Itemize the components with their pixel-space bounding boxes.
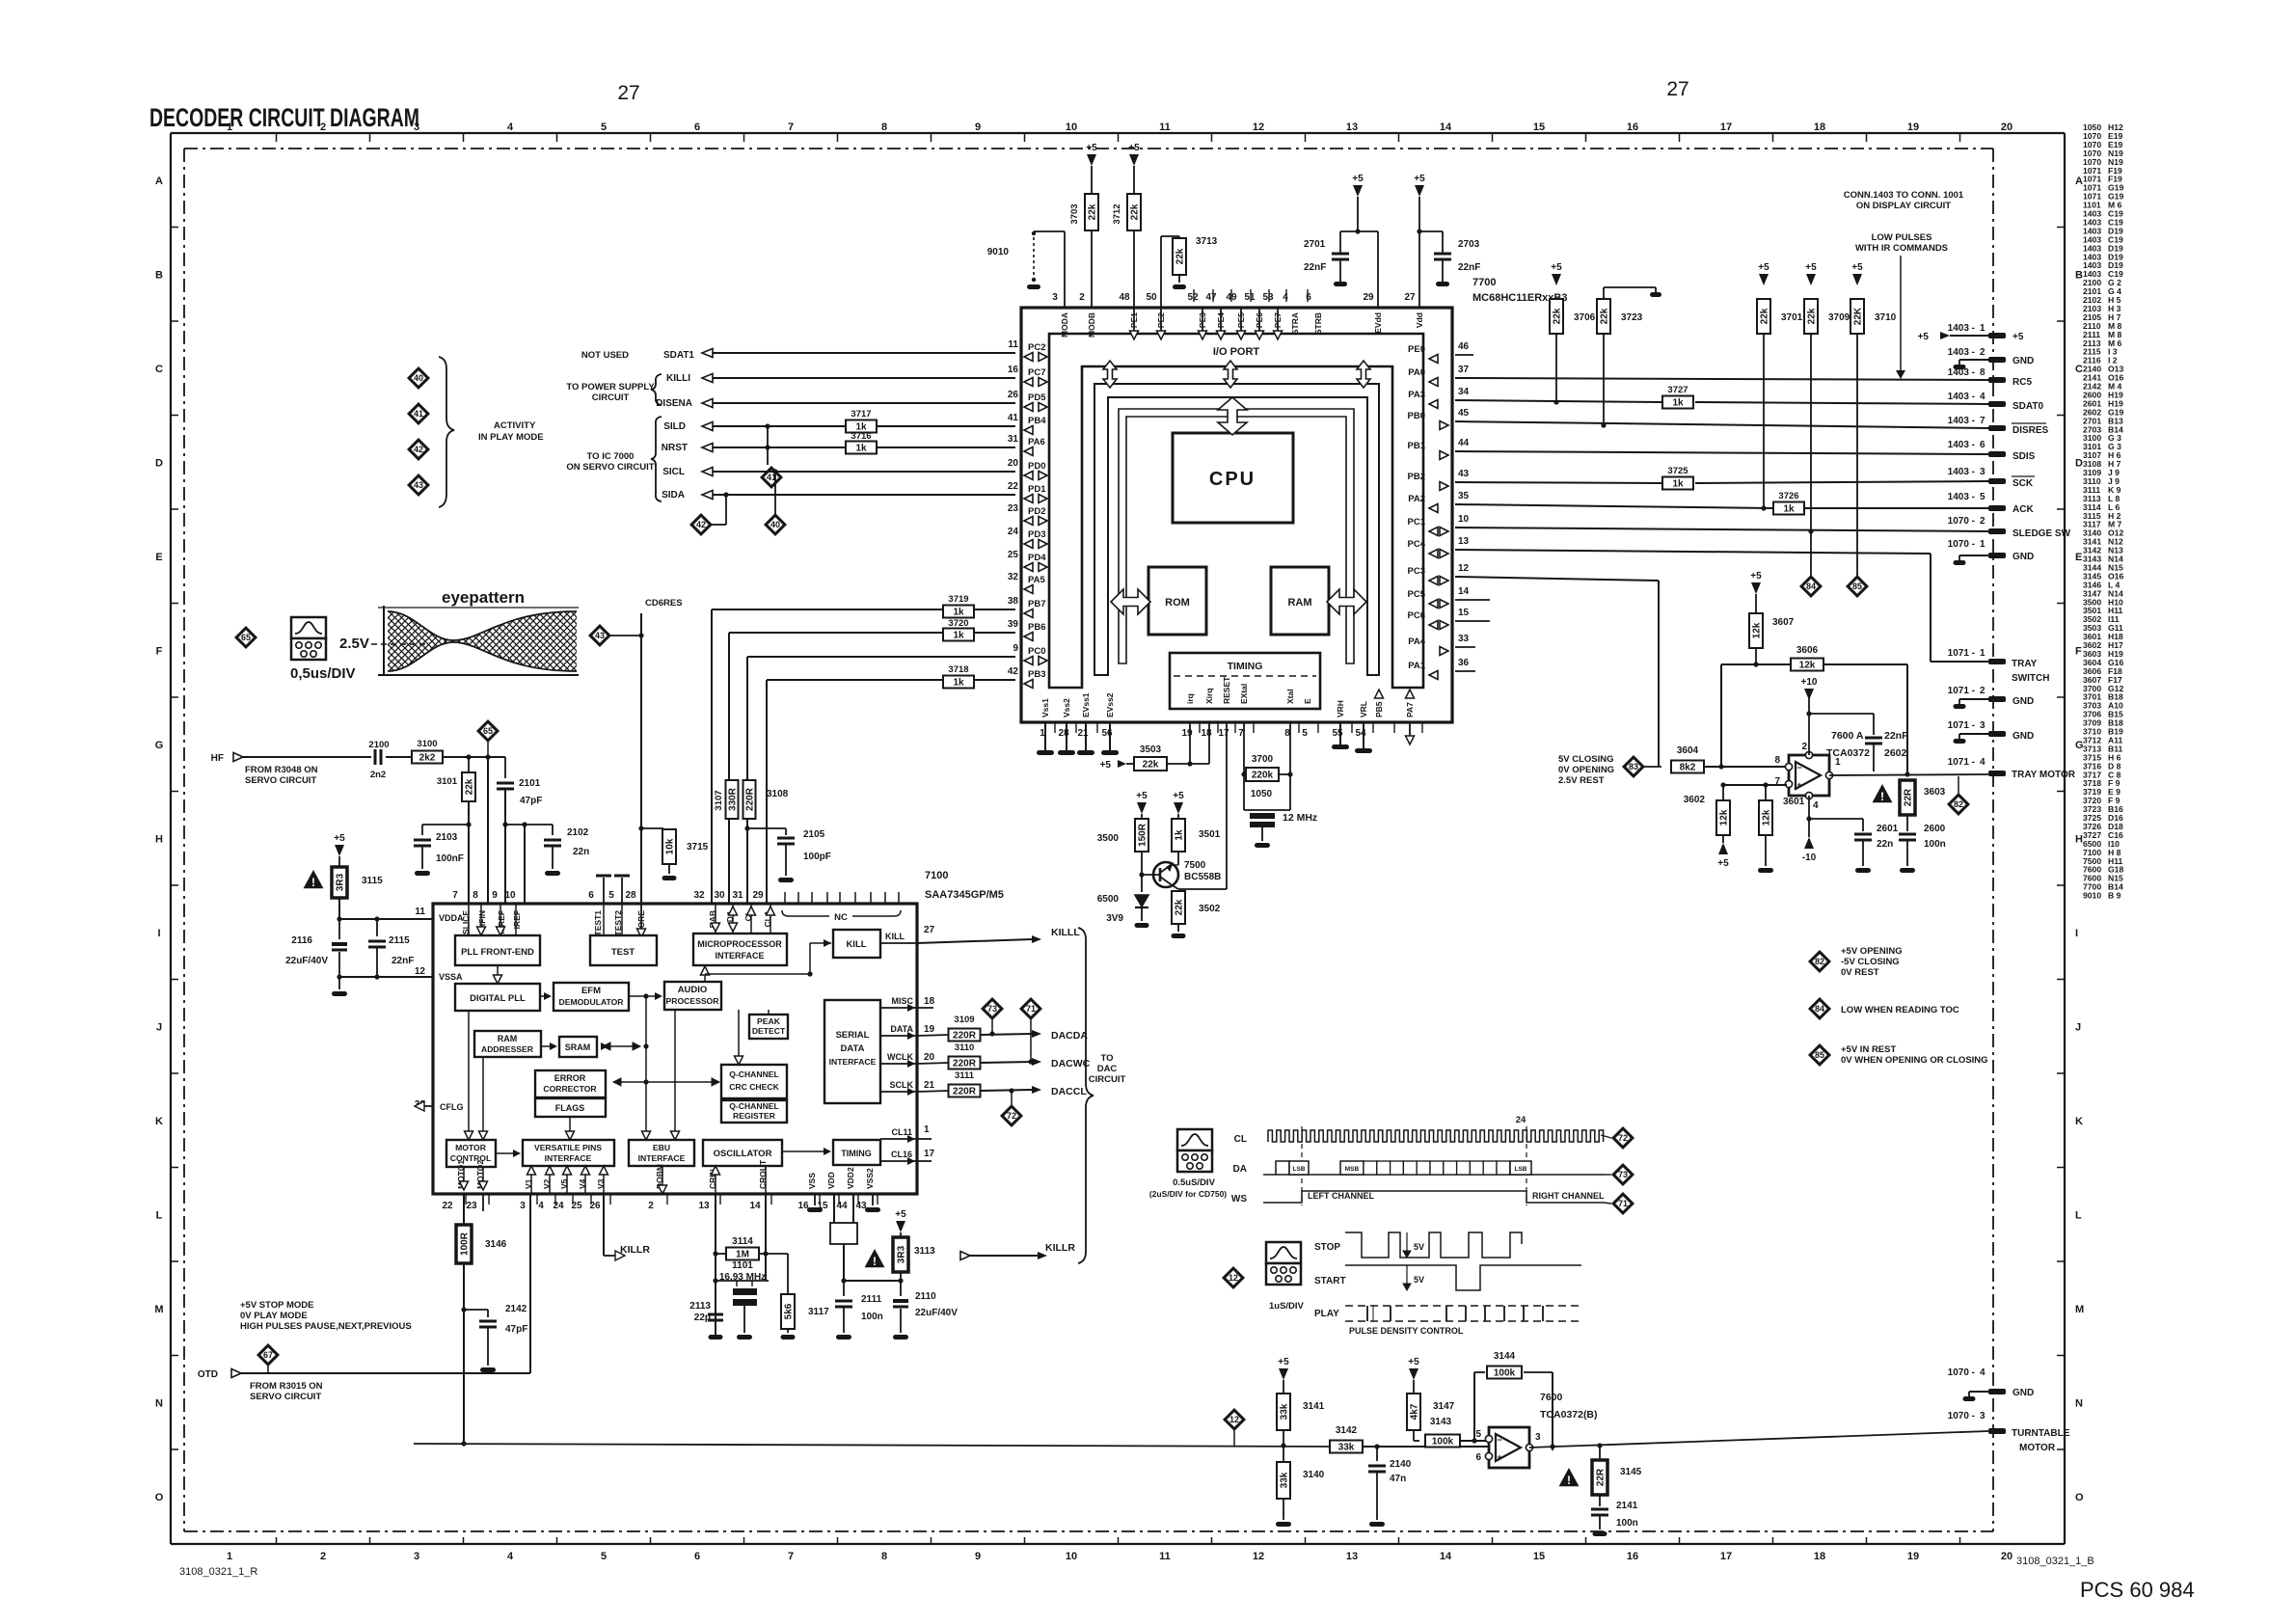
svg-text:O: O — [155, 1492, 164, 1503]
svg-text:100n: 100n — [861, 1312, 883, 1322]
svg-text:1k: 1k — [1783, 504, 1795, 515]
arrow DOBM — [662, 1166, 663, 1188]
wire 3503 to irq Xirq — [1126, 763, 1134, 765]
svg-text:34: 34 — [1458, 387, 1470, 397]
CPU bottom pin separators — [1054, 722, 1056, 733]
svg-text:-5V CLOSING: -5V CLOSING — [1841, 957, 1900, 967]
stub PE0 — [1455, 354, 1473, 356]
svg-text:Vdd: Vdd — [1415, 312, 1424, 328]
svg-text:10: 10 — [1066, 1551, 1077, 1562]
svg-text:OTD: OTD — [198, 1369, 218, 1380]
svg-text:PLAY: PLAY — [1314, 1309, 1339, 1319]
svg-text:9010: 9010 — [987, 247, 1010, 257]
legend diamond 82 — [1810, 952, 1829, 971]
svg-text:ON DISPLAY CIRCUIT: ON DISPLAY CIRCUIT — [1856, 201, 1951, 211]
signal PB7 RAB wire — [712, 609, 1015, 610]
svg-text:40: 40 — [770, 520, 780, 529]
svg-text:2102: 2102 — [567, 827, 589, 838]
svg-text:SDAT0: SDAT0 — [2012, 401, 2043, 412]
svg-text:6: 6 — [694, 1551, 700, 1562]
svg-text:J: J — [2075, 1022, 2081, 1034]
arrow Q-CRC to ERROR CORRECTOR — [613, 1081, 719, 1083]
svg-text:D: D — [155, 458, 163, 470]
svg-text:EFM: EFM — [581, 986, 601, 996]
wire VDDA rail — [339, 918, 433, 920]
svg-text:33: 33 — [1458, 634, 1470, 644]
svg-text:−: − — [1497, 1435, 1501, 1445]
svg-text:FLAGS: FLAGS — [555, 1103, 585, 1113]
block ERROR CORRECTOR — [535, 1070, 606, 1097]
svg-text:4: 4 — [1283, 292, 1288, 303]
svg-text:TO IC 7000: TO IC 7000 — [587, 451, 635, 462]
svg-text:+5: +5 — [1750, 571, 1762, 582]
svg-text:NRST: NRST — [662, 443, 688, 453]
resistor 3141 33k — [1277, 1394, 1290, 1430]
svg-text:B: B — [2075, 270, 2083, 282]
svg-text:PC6: PC6 — [1408, 610, 1425, 621]
svg-text:22R: 22R — [1904, 788, 1914, 806]
svg-text:J: J — [156, 1022, 162, 1034]
feedback wire 3606 to output — [1823, 663, 1907, 665]
svg-text:CIRCUIT: CIRCUIT — [1089, 1074, 1126, 1085]
wire 9010 to MODA — [1034, 230, 1065, 232]
inner bus ring 2 — [1119, 409, 1354, 663]
arrows DIGITAL PLL to MOTOR CONTROL — [468, 1011, 470, 1134]
svg-text:22n: 22n — [573, 847, 589, 857]
svg-text:26: 26 — [1008, 390, 1019, 400]
svg-text:NOT USED: NOT USED — [581, 350, 629, 361]
svg-text:EBU: EBU — [653, 1143, 670, 1152]
svg-text:(2uS/DIV for CD750): (2uS/DIV for CD750) — [1149, 1189, 1227, 1199]
svg-text:+5: +5 — [1136, 791, 1148, 801]
svg-text:1: 1 — [227, 122, 232, 133]
svg-text:+10: +10 — [1801, 677, 1818, 688]
svg-text:3709: 3709 — [1828, 312, 1850, 323]
svg-text:1k: 1k — [953, 631, 964, 641]
svg-text:+5: +5 — [1173, 791, 1184, 801]
svg-text:5V CLOSING: 5V CLOSING — [1558, 754, 1614, 765]
svg-text:3501: 3501 — [1199, 829, 1221, 840]
wire 3142 to plus input — [1363, 1446, 1489, 1448]
wire DA to diamond — [1604, 1174, 1611, 1176]
svg-text:22k: 22k — [465, 778, 475, 795]
svg-text:22: 22 — [442, 1201, 453, 1211]
svg-text:GND: GND — [2012, 1388, 2034, 1398]
svg-text:43: 43 — [414, 480, 423, 490]
svg-text:2142: 2142 — [505, 1304, 527, 1314]
feedback 3144 100k — [1473, 1372, 1475, 1441]
svg-text:3720: 3720 — [948, 618, 968, 629]
svg-text:SRAM: SRAM — [565, 1042, 591, 1052]
CPU box — [1173, 433, 1293, 523]
wire VDD VDD2 down — [833, 1194, 835, 1223]
svg-text:!: ! — [1567, 1474, 1571, 1487]
svg-text:73: 73 — [987, 1004, 997, 1014]
svg-text:3V9: 3V9 — [1106, 913, 1123, 924]
svg-text:3108_0321_1_R: 3108_0321_1_R — [179, 1566, 257, 1578]
svg-text:36: 36 — [1458, 658, 1470, 668]
signal DACCL — [981, 1090, 1032, 1091]
svg-text:MSB: MSB — [1345, 1166, 1360, 1173]
svg-text:DACDA: DACDA — [1051, 1030, 1088, 1042]
svg-text:2100: 2100 — [368, 740, 389, 750]
svg-text:+5V STOP MODE: +5V STOP MODE — [240, 1300, 313, 1311]
svg-text:TIMING: TIMING — [1228, 661, 1263, 672]
svg-text:MODB: MODB — [1087, 312, 1096, 338]
wire 3115 to VDDA rail — [338, 898, 340, 919]
capacitor 2110 22uF/40V — [900, 1281, 902, 1296]
svg-text:100R: 100R — [460, 1232, 471, 1256]
svg-text:15: 15 — [1533, 122, 1545, 133]
svg-text:PB3: PB3 — [1028, 669, 1045, 680]
svg-text:1403 -: 1403 - — [1948, 492, 1975, 502]
wire VSSA rail — [339, 976, 433, 978]
svg-text:-10: -10 — [1802, 853, 1817, 863]
svg-text:14: 14 — [1440, 122, 1452, 133]
svg-text:DA: DA — [1233, 1164, 1247, 1175]
svg-text:SICL: SICL — [662, 467, 685, 477]
svg-text:+5: +5 — [1128, 143, 1140, 153]
svg-text:100pF: 100pF — [803, 852, 831, 862]
arrow note to RC5 wire — [1900, 256, 1902, 370]
svg-text:82: 82 — [1954, 799, 1963, 809]
svg-text:5k6: 5k6 — [784, 1303, 795, 1319]
svg-text:IN PLAY MODE: IN PLAY MODE — [478, 432, 544, 443]
svg-text:SERVO CIRCUIT: SERVO CIRCUIT — [245, 775, 316, 786]
svg-text:37: 37 — [1458, 365, 1470, 375]
svg-text:CL16: CL16 — [891, 1150, 912, 1159]
ground 3713 — [1178, 275, 1180, 283]
svg-text:ACTIVITY: ACTIVITY — [494, 420, 536, 431]
svg-text:16: 16 — [1627, 122, 1638, 133]
svg-text:EVss2: EVss2 — [1105, 692, 1115, 717]
legend diamond 84 — [1810, 999, 1829, 1018]
warning triangle 3113 — [865, 1249, 885, 1267]
svg-text:1: 1 — [227, 1551, 232, 1562]
svg-text:Xirq: Xirq — [1204, 688, 1214, 704]
svg-text:3108_0321_1_B: 3108_0321_1_B — [2016, 1556, 2094, 1567]
resistor 3706 22k — [1550, 299, 1563, 334]
svg-text:0V REST: 0V REST — [1841, 967, 1879, 978]
svg-text:3142: 3142 — [1336, 1425, 1358, 1436]
wire MOTO1 down — [463, 1194, 465, 1225]
svg-text:3143: 3143 — [1430, 1417, 1452, 1427]
svg-text:MICROPROCESSOR: MICROPROCESSOR — [697, 939, 782, 949]
transistor 7500 BC558B — [1153, 862, 1178, 887]
svg-text:7: 7 — [788, 122, 794, 133]
svg-text:+5V OPENING: +5V OPENING — [1841, 946, 1903, 957]
diamond 85 annotation — [1848, 577, 1867, 596]
svg-text:INTERFACE: INTERFACE — [545, 1153, 592, 1163]
svg-text:12: 12 — [1229, 1273, 1238, 1283]
diamond 73 — [983, 999, 1002, 1018]
svg-text:3140: 3140 — [1303, 1470, 1325, 1480]
svg-text:4: 4 — [507, 1551, 514, 1562]
svg-text:STRB: STRB — [1313, 312, 1323, 335]
wire diamond 40 to SICL — [774, 501, 776, 515]
svg-text:30: 30 — [714, 890, 725, 901]
svg-text:+5: +5 — [1086, 143, 1097, 153]
svg-text:22R: 22R — [1596, 1468, 1607, 1486]
svg-text:85: 85 — [1815, 1050, 1824, 1060]
svg-text:14: 14 — [749, 1201, 761, 1211]
eyepattern scope icon — [291, 617, 326, 638]
wire 3501 to transistor collector — [1177, 852, 1179, 865]
waveform DA data — [1263, 1174, 1604, 1176]
wire diamond 42 to SIDA — [711, 524, 726, 526]
svg-text:11: 11 — [415, 907, 425, 917]
svg-text:13: 13 — [1458, 536, 1470, 547]
svg-text:4: 4 — [1980, 1367, 1985, 1378]
svg-text:2600: 2600 — [1924, 824, 1946, 834]
waveform START — [1345, 1265, 1581, 1290]
svg-text:1071 -: 1071 - — [1948, 686, 1975, 696]
svg-text:4: 4 — [507, 122, 514, 133]
signal PC0 CL wire — [747, 656, 1015, 658]
svg-text:+5: +5 — [1100, 760, 1112, 771]
svg-text:PD1: PD1 — [1028, 484, 1046, 495]
svg-text:PC2: PC2 — [1028, 342, 1045, 353]
wire 3723 to DISRES — [1603, 334, 1605, 425]
svg-text:PLL FRONT-END: PLL FRONT-END — [461, 947, 534, 958]
svg-text:PEAK: PEAK — [757, 1016, 781, 1026]
activity legend diamonds 40-43 — [409, 368, 428, 388]
svg-text:PD5: PD5 — [1028, 392, 1046, 403]
svg-text:C: C — [155, 364, 163, 375]
svg-text:3R3: 3R3 — [336, 873, 346, 891]
resistor 3145 22R — [1599, 1446, 1601, 1460]
resistor 3710 22K — [1850, 299, 1864, 334]
TEST1 pin bar — [603, 878, 605, 904]
svg-text:17: 17 — [1720, 1551, 1732, 1562]
svg-text:3111: 3111 — [955, 1070, 975, 1081]
svg-text:1070 -: 1070 - — [1948, 1411, 1975, 1421]
svg-text:3113: 3113 — [914, 1246, 935, 1257]
block MOTOR CONTROL — [446, 1140, 496, 1167]
svg-text:42: 42 — [414, 445, 423, 454]
node SILD NRST to activity diamond 41 — [765, 423, 770, 428]
svg-text:KILLR: KILLR — [620, 1244, 650, 1256]
svg-text:DATA: DATA — [890, 1024, 913, 1034]
svg-text:PC5: PC5 — [1408, 589, 1426, 600]
NC bracket — [782, 910, 901, 916]
svg-text:FROM R3015 ON: FROM R3015 ON — [250, 1381, 323, 1392]
svg-text:WITH IR COMMANDS: WITH IR COMMANDS — [1855, 243, 1948, 254]
arrow MPI to KILL — [810, 942, 831, 944]
svg-text:5: 5 — [608, 890, 614, 901]
svg-text:7500: 7500 — [1184, 860, 1206, 871]
waveform PLAY pulse density — [1345, 1320, 1581, 1322]
svg-text:O: O — [2075, 1492, 2084, 1503]
svg-text:PA2: PA2 — [1408, 494, 1425, 504]
outer frame border — [171, 132, 2065, 134]
svg-text:22k: 22k — [1760, 308, 1770, 324]
svg-text:18: 18 — [1814, 1551, 1825, 1562]
scope icon stop start play — [1266, 1242, 1301, 1263]
svg-text:35: 35 — [1458, 491, 1470, 501]
svg-text:0.5uS/DIV: 0.5uS/DIV — [1173, 1177, 1215, 1188]
svg-text:3: 3 — [1980, 720, 1985, 731]
svg-text:21: 21 — [1077, 728, 1089, 739]
svg-text:16: 16 — [1627, 1551, 1638, 1562]
svg-text:2115: 2115 — [389, 935, 410, 946]
block EBU INTERFACE — [629, 1140, 694, 1166]
svg-text:220R: 220R — [745, 787, 756, 811]
signal KILLR right — [960, 1252, 970, 1260]
svg-text:13: 13 — [1346, 122, 1358, 133]
svg-text:22k: 22k — [1130, 203, 1141, 220]
svg-text:CL11: CL11 — [891, 1127, 912, 1137]
svg-text:PB5: PB5 — [1374, 701, 1384, 717]
svg-text:9: 9 — [1013, 643, 1018, 654]
svg-text:22k: 22k — [1143, 760, 1159, 771]
svg-text:+5: +5 — [1918, 332, 1930, 342]
svg-text:5: 5 — [601, 122, 607, 133]
svg-text:1403 -: 1403 - — [1948, 440, 1975, 450]
output wire to TURNTABLE MOTOR — [1529, 1431, 1988, 1448]
svg-text:−: − — [1796, 763, 1801, 772]
wire MOTO2 stub — [482, 1194, 484, 1211]
block TEST — [590, 935, 657, 965]
svg-text:EXtal: EXtal — [1239, 684, 1249, 704]
wire transistor emitter to 3502 — [1171, 884, 1178, 889]
svg-text:2703: 2703 — [1458, 239, 1480, 250]
svg-text:ADDRESSER: ADDRESSER — [481, 1044, 534, 1054]
inner dash-dot border — [184, 148, 1993, 149]
stub PC6 — [1455, 620, 1490, 622]
ground EVss2 — [1109, 722, 1111, 750]
svg-text:47pF: 47pF — [520, 796, 542, 806]
svg-text:LSB: LSB — [1293, 1166, 1306, 1173]
svg-text:3: 3 — [1535, 1432, 1541, 1443]
svg-text:72: 72 — [1007, 1111, 1016, 1121]
wire pin4 to 2601 — [1809, 818, 1863, 820]
arrow MOTOR CONTROL to VERSATILE — [496, 1152, 515, 1154]
svg-text:1071 -: 1071 - — [1948, 720, 1975, 731]
svg-text:3715: 3715 — [687, 842, 709, 853]
wire OTD to V1 — [241, 1372, 530, 1374]
svg-text:12k: 12k — [1799, 661, 1816, 671]
svg-text:19: 19 — [1907, 1551, 1919, 1562]
svg-text:11: 11 — [1159, 1551, 1171, 1562]
svg-text:10k: 10k — [665, 838, 676, 854]
resistor 3601 12k — [1759, 800, 1772, 835]
svg-text:PD3: PD3 — [1028, 529, 1045, 540]
svg-text:+5: +5 — [1805, 262, 1817, 273]
svg-text:17: 17 — [924, 1149, 935, 1159]
svg-text:7: 7 — [1980, 416, 1985, 426]
wire MPI KILL vertical — [807, 971, 812, 976]
svg-text:8: 8 — [473, 890, 478, 901]
svg-text:MOTOR: MOTOR — [2019, 1443, 2056, 1453]
svg-text:PA6: PA6 — [1028, 437, 1045, 447]
svg-text:41: 41 — [1008, 413, 1019, 423]
svg-text:+5V IN REST: +5V IN REST — [1841, 1044, 1896, 1055]
svg-text:27: 27 — [1666, 78, 1688, 100]
signal PB3 CLA wire — [767, 679, 1015, 681]
wire 3703 to MODB — [1091, 230, 1093, 308]
svg-text:1403 -: 1403 - — [1948, 467, 1975, 477]
svg-text:40: 40 — [414, 373, 423, 383]
svg-text:22k: 22k — [1553, 308, 1563, 324]
svg-text:10: 10 — [1458, 514, 1470, 525]
svg-text:33k: 33k — [1280, 1472, 1290, 1488]
svg-text:+5: +5 — [1414, 174, 1425, 184]
svg-text:DETECT: DETECT — [752, 1026, 786, 1036]
svg-text:TEST1: TEST1 — [593, 910, 603, 936]
svg-text:INTERFACE: INTERFACE — [829, 1057, 877, 1067]
signal DACWC — [981, 1062, 1032, 1063]
svg-text:20: 20 — [2001, 1551, 2012, 1562]
CPU top pin separators — [1193, 289, 1195, 302]
svg-text:LOW WHEN READING TOC: LOW WHEN READING TOC — [1841, 1005, 1959, 1015]
svg-text:3141: 3141 — [1303, 1401, 1325, 1412]
svg-text:22n: 22n — [1877, 839, 1893, 850]
svg-text:6: 6 — [588, 890, 594, 901]
svg-text:3706: 3706 — [1574, 312, 1596, 323]
svg-text:VERSATILE PINS: VERSATILE PINS — [534, 1143, 602, 1152]
svg-text:!: ! — [1880, 790, 1884, 803]
svg-text:KILLI: KILLI — [666, 373, 690, 384]
svg-text:2.5V REST: 2.5V REST — [1558, 775, 1605, 786]
svg-text:A: A — [155, 176, 163, 187]
svg-text:0V PLAY MODE: 0V PLAY MODE — [240, 1311, 308, 1321]
capacitor 2103 100nF — [422, 824, 469, 826]
svg-text:CPU: CPU — [1209, 469, 1256, 490]
svg-text:2n2: 2n2 — [370, 770, 386, 780]
PORE pin wire from CD6RES — [638, 826, 643, 830]
svg-text:G: G — [155, 740, 164, 751]
svg-text:I: I — [157, 928, 160, 939]
svg-text:SWITCH: SWITCH — [2012, 673, 2049, 684]
svg-text:25: 25 — [1008, 550, 1019, 560]
svg-text:22k: 22k — [1600, 308, 1610, 324]
svg-text:3725: 3725 — [1667, 466, 1688, 476]
svg-text:2113: 2113 — [689, 1301, 711, 1312]
wire PC4 to tray switch — [1930, 554, 1931, 662]
signal PB6 DA wire — [729, 632, 1015, 634]
svg-text:0V WHEN OPENING OR CLOSING: 0V WHEN OPENING OR CLOSING — [1841, 1055, 1988, 1066]
svg-text:PA4: PA4 — [1408, 636, 1425, 647]
svg-text:PB1: PB1 — [1408, 441, 1426, 451]
svg-text:7: 7 — [452, 890, 458, 901]
svg-text:31: 31 — [1008, 434, 1019, 445]
svg-text:7600: 7600 — [1540, 1392, 1563, 1403]
svg-text:85: 85 — [1852, 582, 1862, 591]
pins into MICROPROCESSOR INTERFACE — [715, 904, 716, 934]
svg-text:+: + — [1497, 1452, 1501, 1462]
wire EXtal Xtal to 3700 — [1243, 722, 1245, 810]
svg-text:15: 15 — [1533, 1551, 1545, 1562]
svg-text:1050: 1050 — [1251, 789, 1273, 799]
svg-text:2: 2 — [648, 1201, 654, 1211]
diamond 65 eyepattern — [236, 628, 256, 647]
svg-text:3147: 3147 — [1433, 1401, 1455, 1412]
svg-text:HF: HF — [211, 753, 224, 764]
TIMING box — [1170, 653, 1320, 709]
svg-text:15: 15 — [1458, 608, 1470, 618]
svg-text:GND: GND — [2012, 356, 2034, 366]
svg-text:A: A — [2075, 176, 2083, 187]
svg-text:4: 4 — [1813, 800, 1819, 811]
svg-text:PB4: PB4 — [1028, 416, 1046, 426]
svg-text:12: 12 — [415, 966, 426, 977]
svg-text:82: 82 — [1815, 957, 1824, 966]
svg-text:65: 65 — [483, 726, 493, 736]
svg-text:3107: 3107 — [714, 790, 724, 810]
svg-text:2140: 2140 — [1390, 1459, 1412, 1470]
svg-text:VRL: VRL — [1359, 701, 1368, 717]
